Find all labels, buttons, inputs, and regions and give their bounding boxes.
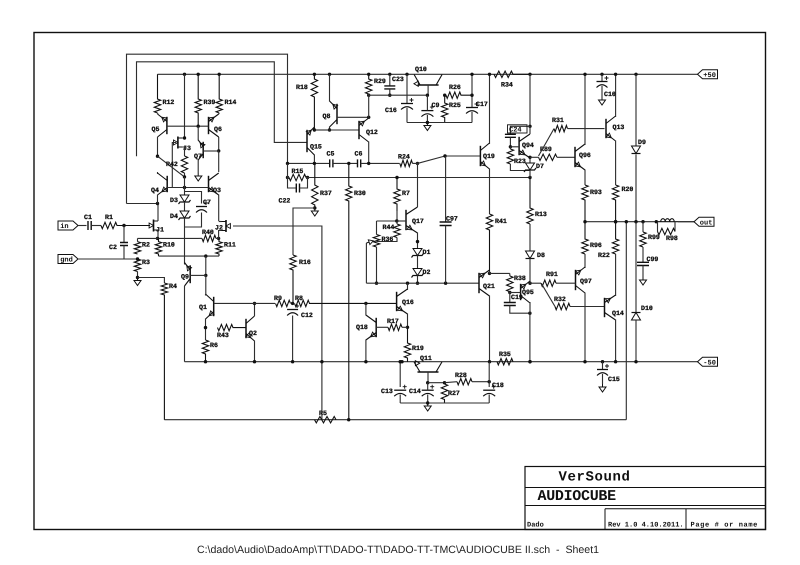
label C10 (604, 91, 616, 98)
wire C7 bottom tap (185, 213, 202, 228)
resistor R1 (101, 222, 150, 228)
junction (614, 360, 617, 363)
junction (528, 156, 531, 159)
wire Q19 emitter down (489, 169, 491, 215)
junction (156, 202, 159, 205)
junction (347, 162, 350, 165)
svg-text:C17: C17 (476, 101, 488, 108)
label R89 (540, 146, 552, 153)
wire R12 to Q5 emitter (157, 113, 159, 114)
svg-text:R30: R30 (354, 190, 366, 197)
label D8 (537, 252, 545, 259)
junction (286, 176, 289, 179)
svg-text:Q4: Q4 (151, 187, 159, 194)
label C15 (608, 376, 620, 383)
label R1 (105, 214, 113, 221)
junction (509, 145, 512, 148)
wire out rail to D10 (635, 222, 637, 313)
label C97 (446, 216, 458, 223)
label R34 (501, 82, 513, 89)
capacitor C24 (505, 134, 516, 137)
wire gnd run (78, 258, 138, 260)
wire R15 right (306, 177, 308, 179)
wire R28 left (445, 382, 458, 383)
svg-text:Q3: Q3 (213, 187, 221, 194)
svg-text:R1: R1 (105, 214, 113, 221)
wire Q1 collector stub (205, 294, 207, 296)
label R29 (374, 78, 386, 85)
wire Q6 collector down (218, 137, 220, 151)
wire R2 top (137, 238, 139, 241)
wire Q16 collector up (407, 283, 409, 290)
wire node to Q12 base part1 (314, 129, 329, 131)
wire Q94 emitter to D7 (529, 158, 531, 163)
label R40 (202, 229, 214, 236)
label R22 (598, 252, 610, 259)
label R10 (163, 242, 175, 249)
junction (405, 73, 408, 76)
wire C22 left leg (288, 163, 297, 188)
resistor R27 (441, 384, 447, 403)
label D10 (641, 305, 653, 312)
svg-text:-50: -50 (703, 359, 716, 367)
junction (291, 360, 294, 363)
wire down to Q1 collector (205, 275, 207, 295)
junction (388, 94, 391, 97)
svg-text:R22: R22 (598, 252, 610, 259)
junction (426, 381, 429, 384)
svg-text:R44: R44 (383, 224, 395, 231)
svg-text:R2: R2 (142, 242, 150, 249)
svg-text:C15: C15 (608, 376, 620, 383)
wire R44 to R36 (377, 238, 398, 242)
junction (655, 220, 658, 223)
label Q12 (366, 129, 378, 136)
junction (528, 73, 531, 76)
wire Q17 collector up (417, 163, 419, 207)
label R23 (514, 158, 526, 165)
transistor Q96 (575, 144, 585, 170)
wire Q96 collector up (584, 74, 586, 145)
junction (583, 360, 586, 363)
wire loop outer to J1 drain (127, 203, 158, 205)
svg-text:Q6: Q6 (214, 126, 222, 133)
wire Q95 base (510, 292, 521, 294)
wire to C2 (123, 226, 125, 243)
wire Q12 collector down (368, 142, 370, 164)
wire Q13 collector up (615, 74, 617, 117)
junction (291, 302, 294, 305)
wire R98 left leg (657, 222, 659, 232)
wire Q16 emitter down (407, 314, 409, 328)
title Dado (527, 520, 544, 529)
junction (320, 360, 323, 363)
transistor Q19 (480, 143, 489, 169)
svg-text:Q7: Q7 (194, 153, 202, 160)
label C5 (327, 151, 335, 158)
junction (197, 73, 200, 76)
label C1 (84, 214, 92, 221)
resistor R23 (507, 149, 513, 164)
junction (156, 155, 159, 158)
wire R3 bottom (137, 272, 139, 278)
label Q96 (579, 152, 591, 159)
capacitor C99 (637, 262, 649, 265)
wire loop outer (127, 54, 288, 203)
label R27 (448, 390, 460, 397)
junction (508, 291, 511, 294)
label Q14 (612, 310, 624, 317)
capacitor C97 (440, 222, 452, 226)
capacitor C17 (466, 102, 479, 114)
wire C16 top lead (406, 74, 408, 103)
wire Q14 collector down (615, 320, 617, 362)
wire R38 top lead (509, 273, 511, 276)
resistor R28 (457, 379, 472, 385)
wire R24 right (413, 162, 418, 164)
label R16 (299, 259, 311, 266)
resistor R10 (155, 238, 161, 256)
resistor R19 (404, 327, 410, 361)
junction (443, 381, 446, 384)
wire D3 to D4 (184, 202, 186, 211)
label Q8 (323, 113, 331, 120)
junction (528, 282, 531, 285)
resistor R7 (394, 178, 400, 212)
label J2 (215, 225, 223, 232)
resistor R8 (295, 300, 397, 306)
svg-text:R20: R20 (622, 186, 634, 193)
capacitor C1 (88, 221, 91, 230)
junction (528, 312, 531, 315)
junction (444, 282, 447, 285)
label R37 (320, 190, 332, 197)
label C6 (355, 151, 363, 158)
label R4 (169, 283, 177, 290)
wire Q21 emitter up (489, 271, 491, 273)
wire J2 gate feedback (233, 226, 322, 420)
label D9 (638, 139, 646, 146)
resistor R24 (400, 160, 413, 166)
label R42 (166, 161, 178, 168)
wire R23 bottom to D7 (510, 164, 530, 171)
wire C13 bottom lead (399, 395, 401, 404)
wire C17 top lead (471, 74, 473, 107)
resistor R16 (290, 255, 296, 303)
resistor R37 (312, 163, 318, 208)
wire to R16 (293, 208, 315, 255)
resistor R44 (394, 224, 400, 238)
svg-text:C97: C97 (446, 216, 458, 223)
label R5 (319, 410, 327, 417)
svg-text:Q14: Q14 (612, 310, 624, 317)
svg-text:C:\dado\Audio\DadoAmp\TT\DADO-: C:\dado\Audio\DadoAmp\TT\DADO-TT\DADO-TT… (197, 544, 599, 556)
wire Q9 collector to -50 rail (184, 286, 186, 362)
resistor R18 (311, 74, 317, 130)
wire Q96 emitter down (584, 170, 586, 186)
resistor R3 (134, 259, 140, 272)
ground (640, 277, 647, 285)
capacitor C2 (120, 243, 128, 246)
label C23 (392, 76, 404, 83)
transistor Q7 (198, 140, 205, 160)
wire vas rail b (333, 162, 358, 164)
wire D9 top lead (635, 74, 637, 146)
svg-text:Q12: Q12 (366, 129, 378, 136)
junction (416, 240, 419, 243)
wire D8 down (529, 259, 531, 284)
wire J2 drain lead (219, 221, 222, 223)
transistor Q11 (414, 361, 442, 372)
wire R98 right leg (674, 222, 676, 232)
resistor R5 (315, 417, 337, 423)
wire vas rail c (361, 162, 400, 164)
label R96 (590, 242, 602, 249)
wire Q14 emitter up (615, 268, 617, 296)
wire R10 R11 bottoms (159, 255, 220, 257)
wire Q1 emitter down (205, 319, 207, 341)
svg-text:R15: R15 (292, 168, 304, 175)
label Q15 (310, 144, 322, 151)
svg-text:C1: C1 (84, 214, 92, 221)
svg-text:R27: R27 (448, 390, 460, 397)
capacitor C15 (597, 364, 609, 376)
svg-text:R93: R93 (590, 189, 602, 196)
wire R29 bottom (368, 94, 370, 117)
junction (528, 360, 531, 363)
svg-text:D9: D9 (638, 139, 646, 146)
label R11 (224, 242, 236, 249)
svg-text:R16: R16 (299, 259, 311, 266)
wire Q9 emitter (184, 263, 186, 266)
ground (424, 123, 431, 131)
transistor Q97 (576, 267, 586, 293)
label Q16 (402, 299, 414, 306)
capacitor C7 (196, 201, 208, 213)
junction (328, 128, 331, 131)
label Q9 (181, 274, 189, 281)
wire base run to R36 (376, 221, 378, 235)
label D4 (170, 213, 178, 220)
wire diagonal to R42 node (158, 156, 185, 177)
resistor R2 (134, 242, 140, 254)
wire Q18 base to R17 (376, 326, 388, 328)
svg-text:Q11: Q11 (420, 355, 432, 362)
svg-text:R12: R12 (163, 99, 175, 106)
wire to Q9 base (205, 256, 207, 275)
svg-text:R25: R25 (449, 102, 461, 109)
wire in to C1 (78, 225, 87, 227)
transistor Q17 (406, 207, 418, 233)
resistor R96 (582, 222, 588, 254)
wire Q94 collector up (529, 126, 531, 134)
label Q18 (356, 324, 368, 331)
junction (470, 94, 473, 97)
label D1 (423, 249, 431, 256)
junction (204, 274, 207, 277)
wire Q7 emitter up (197, 126, 199, 140)
svg-text:D7: D7 (536, 163, 544, 170)
junction (488, 272, 491, 275)
wire Q2 collector up (254, 303, 256, 316)
junction (204, 326, 207, 329)
junction (601, 360, 604, 363)
wire C10 stub (601, 86, 603, 97)
wire source rail (138, 237, 199, 239)
label R44 (383, 224, 395, 231)
capacitor C5 (330, 159, 333, 167)
wire J1 drain (157, 204, 159, 222)
label R20 (622, 186, 634, 193)
label Q5 (152, 126, 160, 133)
resistor R6 (202, 340, 208, 362)
wire Q18 emitter down (365, 340, 367, 362)
wire down to -50 (529, 313, 531, 362)
resistor R20 (612, 185, 618, 222)
wire Q4 Q3 base tie (167, 187, 208, 189)
transistor Q8 (330, 101, 338, 127)
junction (313, 73, 316, 76)
wire R31 to Q13 base (568, 128, 605, 130)
wire to Q12 base (330, 129, 360, 131)
svg-text:Q97: Q97 (580, 278, 592, 285)
label C2 (109, 244, 117, 251)
wire C1 to R1 (91, 225, 101, 227)
svg-text:Rev 1.0 4.10.2011.: Rev 1.0 4.10.2011. (608, 521, 684, 529)
svg-text:R42: R42 (166, 161, 178, 168)
wire Q11 base stub (427, 372, 429, 383)
junction (313, 206, 316, 209)
wire R91 left (530, 282, 541, 284)
junction (388, 73, 391, 76)
transistor Q5 (158, 114, 167, 137)
wire C12 to -50 (292, 316, 294, 362)
transistor Q95 (521, 281, 530, 303)
wire C19 bottom (510, 306, 530, 314)
label R32 (554, 296, 566, 303)
wire J3 gate down to bias (172, 143, 176, 188)
title Rev (608, 521, 684, 529)
label R30 (354, 190, 366, 197)
svg-text:R29: R29 (374, 78, 386, 85)
wire Q95 emitter (529, 282, 531, 284)
wire C97 bottom lead (445, 226, 447, 284)
wire C97 top lead (445, 156, 447, 222)
svg-text:R24: R24 (398, 154, 410, 161)
junction (634, 360, 637, 363)
svg-text:R37: R37 (320, 190, 332, 197)
resistor R93 (582, 185, 588, 222)
label J3 (183, 145, 191, 152)
wire L to out (678, 221, 694, 223)
svg-text:D2: D2 (423, 269, 431, 276)
label R93 (590, 189, 602, 196)
svg-text:D8: D8 (537, 252, 545, 259)
junction (197, 125, 200, 128)
label Q3 (213, 187, 221, 194)
label C12 (301, 312, 313, 319)
wire Q7 collector down (197, 160, 199, 174)
wire R15 left (288, 177, 290, 179)
title block line under VerSound (525, 487, 766, 489)
label R19 (412, 345, 424, 352)
diode D9 (632, 146, 641, 154)
svg-text:R31: R31 (552, 117, 564, 124)
svg-text:R40: R40 (202, 229, 214, 236)
resistor R11 (216, 238, 222, 256)
junction (528, 125, 531, 128)
svg-text:C5: C5 (327, 151, 335, 158)
junction (583, 220, 586, 223)
wire cluster bottom run (400, 402, 489, 404)
label C13 (381, 388, 393, 395)
junction (406, 282, 409, 285)
resistor R25 (442, 95, 448, 122)
svg-text:Q19: Q19 (483, 153, 495, 160)
diode D8 (526, 251, 535, 259)
wire Q17 emitter down (417, 233, 419, 249)
svg-text:Q5: Q5 (152, 126, 160, 133)
label R36 (382, 236, 394, 243)
wire -50 rail (185, 361, 698, 363)
resistor R91 (541, 280, 556, 286)
wire diagonal to R32 (541, 283, 555, 306)
label R18 (296, 84, 308, 91)
svg-text:Dado: Dado (527, 520, 544, 529)
junction (217, 237, 220, 240)
transistor Q94 (519, 134, 530, 158)
label R7 (402, 190, 410, 197)
wire bias spreader rail (366, 282, 479, 284)
zener D3 (179, 195, 191, 204)
resistor R26 (446, 92, 472, 98)
wire to Q3 collector (218, 151, 220, 172)
svg-text:D10: D10 (641, 305, 653, 312)
wire loop inner to Q15 base (137, 62, 308, 156)
junction (183, 175, 186, 178)
svg-text:C22: C22 (279, 198, 291, 205)
junction (253, 302, 256, 305)
wire Q94 base (510, 146, 519, 148)
ground (311, 208, 318, 216)
svg-text:Q15: Q15 (310, 144, 322, 151)
label Q4 (151, 187, 159, 194)
label Q94 (522, 142, 534, 149)
wire R13 to D8 (529, 224, 531, 251)
wire output rail to out flag (678, 221, 694, 223)
label R14 (225, 99, 237, 106)
flag -50 supply (698, 357, 718, 367)
svg-text:R19: R19 (412, 345, 424, 352)
flag +50 supply (698, 70, 718, 80)
wire D1 to D2 (417, 256, 419, 269)
junction (406, 326, 409, 329)
capacitor C10 (597, 76, 609, 88)
capacitor C13 (394, 385, 407, 397)
wire Q8 emitter up (329, 74, 331, 101)
label Q7 (194, 153, 202, 160)
label C99 (647, 256, 659, 263)
junction (641, 220, 644, 223)
wire C7 top tap (185, 192, 202, 204)
capacitor C18 (483, 385, 496, 397)
wire to R40 (199, 237, 203, 239)
resistor R30 (346, 163, 352, 419)
label D2 (423, 269, 431, 276)
wire R44 top (396, 221, 398, 224)
transistor Q13 (606, 116, 616, 141)
wire D4 down to Q9 (184, 218, 186, 264)
